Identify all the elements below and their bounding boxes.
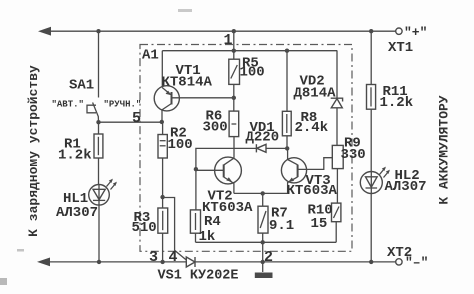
- wire HL1 to bottom bus: [98, 205, 100, 262]
- node R7 top: [261, 191, 265, 195]
- svg-text:2: 2: [264, 249, 273, 266]
- node top bus centre: [232, 29, 236, 33]
- resistor R5: [229, 51, 240, 98]
- svg-text:1k: 1k: [199, 229, 216, 245]
- svg-text:330: 330: [341, 147, 366, 163]
- svg-text:К зарядному устройству: К зарядному устройству: [26, 65, 41, 237]
- svg-text:3: 3: [149, 249, 158, 266]
- svg-text:1.2k: 1.2k: [58, 148, 92, 164]
- diode VD1: [256, 144, 287, 152]
- wire emitter bus VT2-VT3: [234, 192, 288, 194]
- node HL1 bottom bus: [97, 260, 101, 264]
- thyristor VS1: [186, 257, 195, 267]
- svg-text:100: 100: [240, 65, 265, 81]
- resistor R1: [94, 134, 103, 158]
- transistor VT3: [281, 148, 332, 193]
- svg-text:SA1: SA1: [69, 78, 94, 94]
- svg-text:9.1: 9.1: [269, 218, 294, 234]
- svg-text:300: 300: [203, 120, 228, 136]
- wire bottom bus right part: [195, 261, 395, 263]
- node R8 top: [285, 49, 289, 53]
- svg-text:"+": "+": [404, 25, 427, 40]
- wire to R1: [98, 122, 100, 134]
- terminal XT1: [396, 28, 402, 34]
- wire node to R8: [286, 51, 288, 112]
- wire top bus to R11: [370, 31, 372, 84]
- resistor R8: [282, 111, 291, 148]
- svg-text:100: 100: [168, 137, 193, 153]
- resistor R10: [332, 203, 341, 242]
- resistor R9: [332, 145, 343, 203]
- svg-text:"–": "–": [405, 255, 428, 270]
- svg-text:R4: R4: [204, 214, 221, 230]
- node VT1 collector / R2 / SA1: [160, 120, 164, 124]
- svg-text:КТ603А: КТ603А: [287, 183, 338, 199]
- resistor R6: [229, 98, 239, 158]
- wire VT2 base riser: [196, 148, 257, 169]
- scan artifact left: [17, 249, 24, 252]
- wire HL2 to bottom bus: [370, 194, 372, 262]
- wire node 2 to bottom bus: [262, 242, 264, 262]
- wire top bus: [44, 30, 396, 32]
- wire top bus to node 1: [233, 31, 235, 51]
- node SA1 pole: [96, 120, 100, 124]
- wire base node to R4: [195, 169, 197, 210]
- svg-text:Д814А: Д814А: [294, 86, 337, 102]
- ground: [255, 262, 273, 278]
- svg-text:4: 4: [169, 249, 178, 266]
- transistor VT2: [196, 157, 242, 193]
- wire SA1 to pin 5 and R2 node: [99, 121, 162, 123]
- scan artifact top: [178, 9, 192, 12]
- resistor R2: [158, 122, 167, 197]
- svg-text:"РУЧН.": "РУЧН.": [104, 100, 142, 110]
- svg-text:5: 5: [132, 110, 141, 127]
- svg-text:15: 15: [311, 216, 328, 232]
- node R3 bottom bus: [160, 260, 164, 264]
- scan artifact bottom-left: [0, 278, 7, 285]
- node top bus right: [369, 29, 373, 33]
- node R7 bottom: [261, 240, 265, 244]
- dashed box A1: [140, 45, 352, 252]
- diode VD2 zener: [331, 51, 343, 146]
- svg-text:1.2k: 1.2k: [380, 95, 414, 111]
- wire bottom bus left part: [43, 261, 186, 263]
- resistor R11: [367, 85, 376, 172]
- node R5 top: [232, 49, 236, 53]
- svg-text:"АВТ.": "АВТ.": [52, 100, 84, 110]
- svg-text:A1: A1: [142, 48, 159, 64]
- wire R1 to HL1: [98, 158, 100, 185]
- svg-text:АЛ307: АЛ307: [385, 179, 427, 195]
- LED HL1: [89, 179, 117, 206]
- wire VS1 gate: [163, 198, 186, 260]
- wire SA1 pole from top bus: [98, 31, 100, 97]
- svg-text:АЛ307: АЛ307: [56, 205, 98, 221]
- svg-text:1: 1: [224, 32, 233, 49]
- resistor R7: [258, 193, 268, 242]
- svg-text:VS1 КУ202Е: VS1 КУ202Е: [158, 269, 239, 284]
- arrow bottom bus left end: [37, 258, 50, 267]
- node top bus / SA1: [96, 29, 100, 33]
- node bottom bus right: [369, 260, 373, 264]
- transistor VT1: [154, 51, 234, 122]
- node ground on bus: [261, 260, 265, 264]
- svg-text:510: 510: [132, 220, 157, 236]
- LED HL2: [360, 167, 390, 194]
- svg-text:Д220: Д220: [246, 130, 280, 146]
- svg-text:XT1: XT1: [388, 40, 413, 56]
- node VT2 base / R4: [194, 167, 198, 171]
- wire R4/R7/R10 bottom rail: [196, 241, 337, 243]
- svg-text:2.4k: 2.4k: [295, 120, 329, 136]
- node VD1 / R8 / VT3 collector: [285, 146, 289, 150]
- resistor R4: [190, 210, 200, 242]
- switch SA1: [87, 103, 99, 123]
- wire VT1 emitter corner to R5 top: [162, 50, 337, 52]
- terminal XT2: [396, 259, 402, 265]
- svg-text:К АККУМУЛЯТОРУ: К АККУМУЛЯТОРУ: [437, 95, 452, 204]
- node R5/R6/VT1 base: [232, 96, 236, 100]
- resistor R3: [158, 197, 168, 262]
- node R2 bottom / R3 / VS1 gate: [160, 195, 164, 199]
- arrow top bus left end: [38, 27, 51, 36]
- svg-text:КТ814А: КТ814А: [162, 75, 213, 91]
